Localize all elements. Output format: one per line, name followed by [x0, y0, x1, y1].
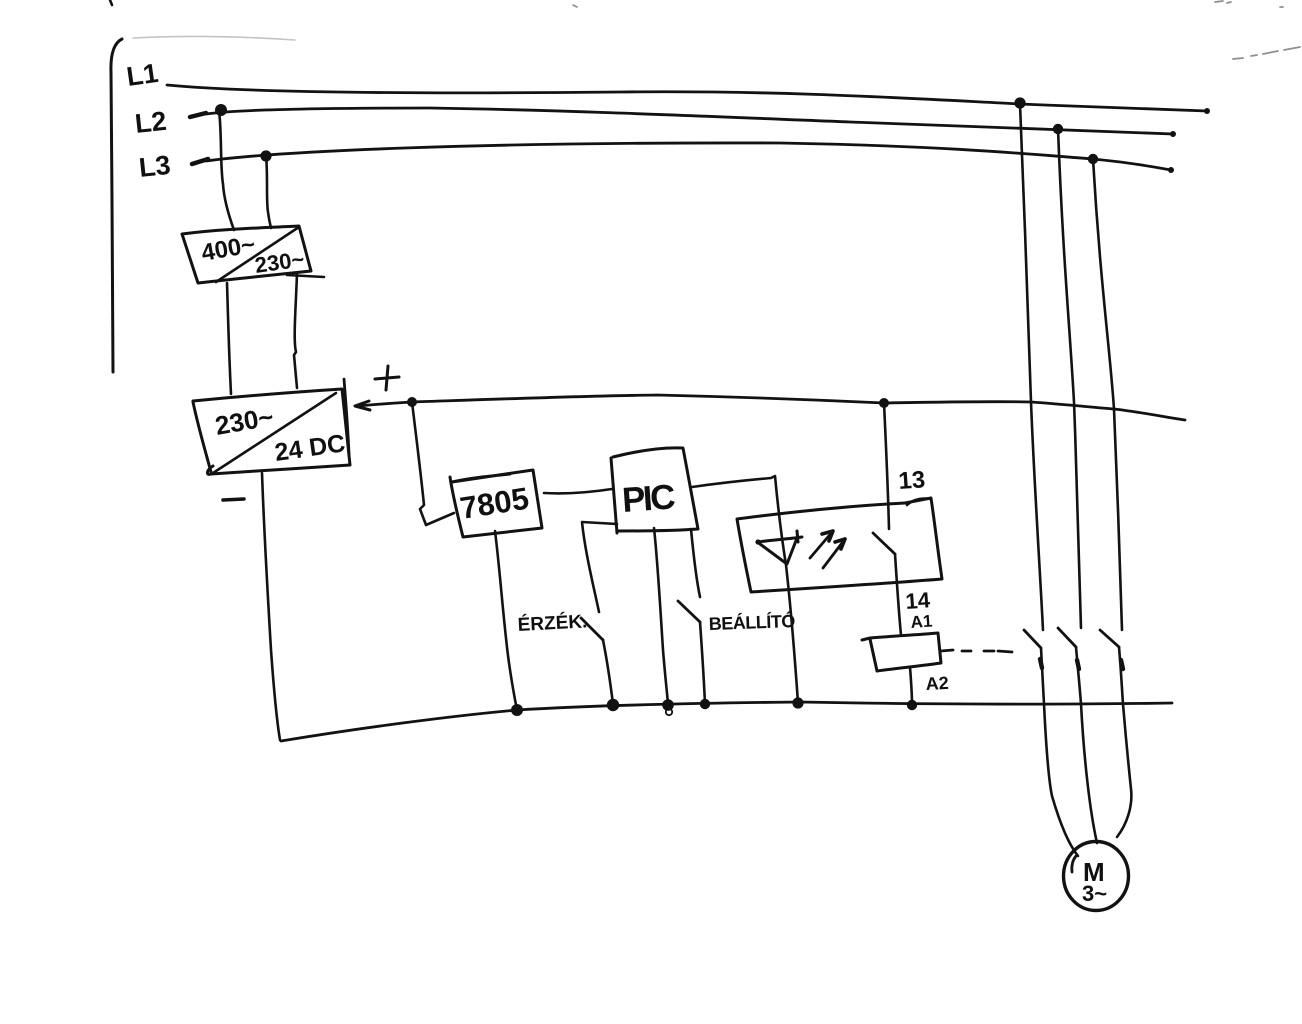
label 3~ — [1082, 881, 1107, 906]
wire PIC bottom-left L to ERZEK switch — [582, 522, 617, 612]
optocoupler U3 box — [737, 498, 942, 592]
label 7805 — [458, 481, 532, 526]
LED D1 — [755, 539, 760, 544]
contact main B blade — [1058, 628, 1076, 647]
label BEALLITO — [708, 610, 795, 634]
power supply PSU 230~/24DC box — [193, 389, 350, 474]
wire + bus with arrowhead into PSU — [355, 401, 370, 410]
tick contact B — [1077, 660, 1079, 669]
wire phase B down from L2 — [1058, 129, 1081, 628]
junction node + left — [407, 397, 417, 407]
wire BEALLITO switch to bus — [700, 622, 705, 704]
plus symbol — [375, 366, 399, 390]
switch ERZEK blade — [581, 618, 603, 640]
relay coil K1 box — [862, 633, 941, 671]
svg-text:ÉRZÉK.: ÉRZÉK. — [517, 610, 588, 636]
label M — [1083, 857, 1105, 887]
junction bus at PIC — [662, 699, 674, 711]
label 13 — [898, 466, 927, 495]
value 230~ — [253, 246, 306, 278]
tick contact C — [1121, 660, 1123, 669]
LED arrows — [810, 531, 833, 558]
svg-text:BEÁLLÍTÓ: BEÁLLÍTÓ — [708, 610, 795, 634]
value 230~ — [213, 401, 276, 441]
wire 13 from + bus down into opto — [884, 403, 889, 529]
regulator U1 7805 box — [450, 470, 542, 537]
wire coil to bus — [910, 667, 912, 704]
value 24DC — [273, 429, 347, 467]
junction node + right — [879, 398, 889, 408]
label A1 — [910, 612, 933, 632]
svg-text:L2: L2 — [133, 106, 167, 139]
wire + down to 7805 — [412, 402, 454, 525]
label ERZEK — [517, 610, 588, 636]
faint scan artifacts — [133, 37, 295, 40]
junction tap L3 — [1088, 154, 1098, 164]
wire phase C down from L3 — [1093, 159, 1122, 630]
wire L3 to transformer T1 — [266, 155, 271, 228]
junction bus at LED — [792, 697, 803, 708]
junction bus at ERZEK — [607, 699, 619, 711]
bracket left margin — [111, 39, 122, 372]
wire L2 with arrowhead — [190, 113, 206, 117]
wire contact B to motor — [1076, 647, 1097, 843]
node L1 label — [125, 58, 160, 92]
wire L1 — [167, 85, 1207, 111]
label PIC — [621, 477, 677, 520]
contact main A blade — [1024, 630, 1041, 648]
wire T1 to PSU left — [227, 283, 231, 394]
svg-text:14: 14 — [905, 587, 932, 614]
label A2 — [925, 673, 949, 694]
wire contact to A1 coil — [895, 554, 901, 635]
junction tap L2 — [1053, 124, 1063, 134]
wire 7805 to PIC — [544, 489, 612, 493]
motor M 3~ circle — [1064, 842, 1129, 911]
junction on L3 — [260, 150, 271, 161]
label 14 — [905, 587, 932, 614]
junction bus at BEALLITO — [700, 699, 710, 709]
junction bus at 7805 — [511, 704, 523, 716]
minus symbol — [223, 499, 244, 500]
node L2 label — [133, 106, 167, 139]
value 400~ — [199, 231, 257, 267]
svg-text:3~: 3~ — [1082, 881, 1107, 906]
wire contact A to motor — [1041, 648, 1078, 856]
wire PIC right to optocoupler LED — [692, 476, 798, 703]
mcu U2 PIC box — [611, 458, 617, 533]
wire PIC bottom right to BEALLITO switch — [691, 529, 700, 597]
wire L3 with arrowhead — [192, 159, 208, 164]
wire L2 to transformer T1 — [219, 110, 234, 230]
svg-text:L3: L3 — [137, 150, 171, 183]
switch BEALLITO blade — [678, 601, 700, 622]
wire PIC bottom middle to bus — [654, 528, 668, 704]
wire ERZEK switch to bus — [603, 640, 613, 704]
wire phase A down from L1 — [1020, 104, 1043, 630]
wire contact C to motor — [1117, 647, 1131, 837]
svg-text:A1: A1 — [910, 612, 933, 632]
svg-text:13: 13 — [898, 466, 927, 495]
svg-text:7805: 7805 — [458, 481, 532, 526]
dashed link coil to contacts — [941, 650, 1012, 652]
junction on L2 — [215, 104, 227, 116]
svg-text:A2: A2 — [925, 673, 949, 694]
svg-text:230~: 230~ — [213, 401, 276, 441]
contact main C blade — [1100, 630, 1119, 647]
wire 7805 bottom to bus — [495, 531, 517, 710]
node L3 label — [137, 150, 171, 183]
svg-text:PIC: PIC — [621, 477, 677, 520]
transformer T1 400~/230~ box — [182, 226, 311, 283]
wire bottom bus — [281, 702, 1172, 741]
svg-text:L1: L1 — [125, 58, 160, 92]
svg-text:24 DC: 24 DC — [273, 429, 347, 467]
wire T1 to PSU right — [294, 273, 297, 388]
tick contact A — [1040, 659, 1042, 668]
wire minus from PSU down — [262, 473, 280, 740]
junction bus at coil — [907, 700, 917, 710]
contact K1 blade inside opto — [873, 533, 895, 554]
junction tap L1 — [1014, 97, 1025, 108]
